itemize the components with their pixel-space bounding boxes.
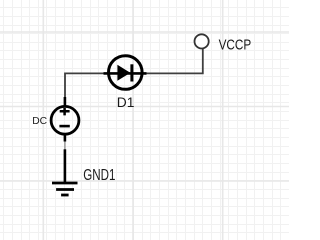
ground bar 2 [56,188,74,191]
diode D1 cathode bar [130,64,133,81]
ground GND1 [52,149,78,195]
svg-text:D1: D1 [117,95,135,110]
svg-text:GND1: GND1 [83,167,115,184]
ground bar 1 [52,182,78,185]
wire from DC source bottom to ground GND1 [64,141,66,150]
svg-text:VCCP: VCCP [219,36,252,53]
wire from DC source top to diode D1 anode [65,73,104,98]
ground lead [64,149,67,182]
diode D1 anode triangle [117,65,130,81]
dc source circle [51,106,79,134]
wire from diode D1 cathode to VCCP terminal [146,49,203,74]
dc source plus sign [60,108,70,116]
dc source top pin [64,97,67,106]
dc source V1 [51,97,79,142]
svg-text:DC: DC [32,116,47,127]
dc source minus sign [59,125,69,128]
diode D1 pin line [104,72,147,75]
diode D1 circle [109,56,143,90]
dc source bottom pin [64,135,67,142]
diode D1 [104,56,147,90]
terminal VCCP [195,34,209,48]
ground bar 3 [61,194,69,197]
